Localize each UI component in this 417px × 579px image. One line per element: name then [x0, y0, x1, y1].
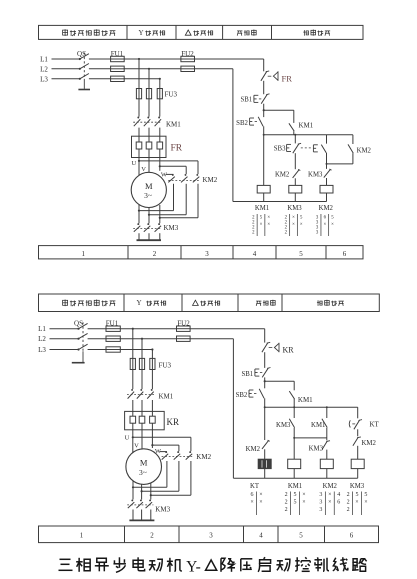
- wire FU3 to KM1 (bottom): [132, 370, 134, 390]
- wire control vertical from L1: [263, 59, 265, 71]
- wire main branch down (bottom): [264, 406, 266, 408]
- svg-text:L3: L3: [38, 346, 46, 354]
- svg-text:L1: L1: [38, 325, 46, 333]
- svg-text:U: U: [131, 160, 136, 167]
- svg-text:1: 1: [82, 250, 86, 258]
- wire QS to FU1 (L3): [89, 78, 111, 80]
- svg-text:U: U: [125, 434, 130, 441]
- wire QS to FU1 (L1): [89, 58, 111, 60]
- wire KM2 c3 to W2: [197, 184, 199, 218]
- wire FU2/L2 to return drop (bottom): [190, 338, 233, 340]
- header table (top diagram): 电源开关及保护 | Y形启动 | △形启动 | 熔断器 | 控制电路: [39, 25, 364, 39]
- wire L1 to QS: [52, 58, 80, 60]
- coil KM3: [289, 185, 302, 193]
- time relay KT delayed contact: [349, 420, 379, 430]
- contactor KM1 aux NO (self hold): [289, 122, 314, 132]
- thermal relay FR NC contact (control): [261, 71, 292, 83]
- svg-text:SB3: SB3: [274, 146, 286, 153]
- svg-text:KM1: KM1: [255, 205, 269, 212]
- wire KM2 coil to return: [326, 193, 328, 202]
- fuse FU2 (2 poles, control circuit): [181, 50, 195, 72]
- svg-text:FR: FR: [171, 143, 183, 153]
- svg-text:×: ×: [302, 500, 305, 506]
- wire C down to FU3: [159, 79, 161, 89]
- svg-text:L1: L1: [40, 56, 48, 64]
- wire SB1 to node: [263, 104, 265, 117]
- pushbutton SB3 NO half: [313, 145, 326, 153]
- svg-text:KM3: KM3: [350, 483, 365, 490]
- svg-text:KM2: KM2: [362, 440, 377, 447]
- wire rail to SB3 NC: [294, 135, 296, 144]
- wire V2 down: [148, 207, 150, 223]
- svg-text:2: 2: [347, 507, 350, 513]
- svg-text:×: ×: [355, 500, 358, 506]
- wire FU1 to FU2 (L2): [124, 68, 181, 70]
- contactor KM1 aux NO (bottom): [289, 391, 313, 404]
- contact usage table KT: [250, 492, 262, 516]
- motor M 3-phase (bottom): [126, 449, 162, 485]
- svg-text:2: 2: [153, 250, 157, 258]
- wire FU1 to FU2 (L1): [124, 58, 181, 60]
- wire W1 to KM2 c1 (bottom): [160, 451, 167, 453]
- wire SB2 to rail: [263, 126, 265, 135]
- contactor KM3 NC (row2): [309, 441, 330, 453]
- wire W2 down (bottom): [150, 483, 152, 500]
- linkage SB3 dashed: [301, 147, 313, 149]
- wire KR to motor W1 (bottom): [151, 430, 153, 448]
- wire SB3 NC to KM2 NO: [294, 153, 296, 169]
- contactor KM2 aux NO (self hold right): [348, 144, 372, 154]
- junction SB3NO/KM2aux: [326, 163, 328, 165]
- wire KM1 aux to rail (bottom): [293, 399, 295, 407]
- fuse FU1 (3 poles): [111, 50, 125, 82]
- wire KR to motor U1 (bottom): [132, 430, 134, 453]
- wire FU2/L2 to control return rail: [195, 68, 233, 70]
- wire FU2 to control circuit top: [195, 58, 264, 60]
- contactor KM2 aux NO (row2): [275, 169, 300, 178]
- wire L2 to QS: [52, 68, 80, 70]
- contactor KM2 delta contacts (bottom): [162, 451, 212, 461]
- svg-text:3: 3: [209, 532, 213, 540]
- contact usage table KM2: [316, 214, 334, 236]
- wire rail 2 (bottom): [265, 406, 358, 408]
- svg-text:6: 6: [251, 492, 254, 498]
- junction rail branch 2 (bottom): [293, 406, 295, 408]
- switch QS (3-pole knife switch): [77, 50, 89, 81]
- wire branch to KM1 aux: [264, 109, 294, 111]
- wire B to FU3 (bottom): [141, 339, 143, 359]
- coil KM1 (bottom): [288, 459, 301, 468]
- svg-text:SB2: SB2: [236, 392, 248, 399]
- star point bar: [137, 233, 162, 240]
- svg-text:3: 3: [205, 250, 209, 258]
- junction node B on L2: [148, 68, 150, 70]
- svg-text:6: 6: [350, 532, 354, 540]
- pushbutton SB2 (bottom, NO): [236, 389, 265, 399]
- wire KT contact to KM2 NC: [357, 429, 359, 436]
- switch QS (bottom): [74, 319, 88, 351]
- wire C tee to KM2 c2 (bottom): [151, 444, 153, 446]
- svg-text:×: ×: [260, 222, 263, 227]
- contactor KM3 aux NO (row2): [308, 169, 331, 179]
- wire control vertical (bottom): [264, 329, 266, 343]
- ground (bottom): [72, 351, 85, 363]
- svg-text:KT: KT: [370, 421, 380, 429]
- svg-text:×: ×: [300, 222, 303, 227]
- svg-text:×: ×: [302, 492, 305, 498]
- wire KM1 NO to KM3 NC: [326, 428, 328, 441]
- contact usage table KM2 (bottom): [319, 492, 340, 516]
- svg-text:SB1: SB1: [240, 97, 252, 104]
- pushbutton SB1 (bottom, NC): [241, 368, 270, 378]
- wire V2 down (bottom): [141, 484, 143, 499]
- wire A to FU3 (bottom): [132, 329, 134, 359]
- svg-text:×: ×: [259, 500, 262, 506]
- svg-text:5: 5: [364, 492, 367, 498]
- svg-text:×: ×: [267, 215, 270, 220]
- wire KM3 coil to return (bottom): [357, 469, 359, 479]
- wire A down to FU3: [138, 59, 140, 89]
- wire KR to motor V1 (bottom): [141, 430, 143, 449]
- contact usage table KM3: [285, 214, 303, 236]
- wire A tee to KM2 c3 (bottom): [132, 436, 134, 438]
- svg-text:L2: L2: [38, 335, 46, 343]
- svg-text:2: 2: [285, 507, 288, 513]
- wire B down to FU3: [148, 69, 150, 89]
- svg-text:3~: 3~: [139, 468, 147, 477]
- junction A (bottom): [132, 328, 134, 330]
- wire KT coil to return: [264, 469, 266, 479]
- fuse FU1 (bottom): [106, 319, 121, 352]
- wire KM3 coil to return: [294, 193, 296, 202]
- wire FU1 to C (bottom L3): [120, 349, 152, 351]
- coil KM2 (bottom): [320, 459, 333, 468]
- junction node A on L1: [138, 58, 140, 60]
- wire QS to FU1 (L2): [89, 68, 111, 70]
- svg-text:5: 5: [356, 492, 359, 498]
- fuse FU2 (bottom): [177, 319, 191, 341]
- svg-text:KM3: KM3: [309, 445, 324, 452]
- svg-text:×: ×: [323, 222, 326, 227]
- svg-text:×: ×: [259, 492, 262, 498]
- thermal relay KR NC contact (control): [262, 342, 294, 354]
- wire KM2 coil to return (bottom): [326, 469, 328, 479]
- svg-text:×: ×: [292, 222, 295, 227]
- svg-text:KM2: KM2: [275, 171, 290, 178]
- node SB2/KM1 branch: [263, 109, 265, 111]
- coil KM3 (bottom): [351, 459, 364, 468]
- wire SB1 to node (bottom): [264, 377, 266, 388]
- junction rail/KM1 coil: [263, 134, 265, 136]
- svg-text:KM3: KM3: [164, 224, 179, 232]
- svg-text:KR: KR: [283, 346, 295, 355]
- wire node line: [294, 437, 327, 439]
- wire KM2 c1 to U2 (bottom): [166, 461, 168, 487]
- contactor KM1 main contacts (bottom): [127, 389, 174, 400]
- svg-text:KM3: KM3: [287, 205, 302, 212]
- junction SB3 branch: [294, 134, 296, 136]
- contactor KM1 main contacts: [133, 117, 181, 129]
- wire KM1 aux to rail: [293, 131, 295, 135]
- svg-text:KM1: KM1: [288, 483, 302, 490]
- junction rail branch 3 (bottom): [326, 406, 328, 408]
- wire L2 to QS (bottom): [50, 338, 79, 340]
- svg-text:×: ×: [328, 500, 331, 506]
- wire KM2 c2 to V2: [185, 184, 187, 215]
- junction B (bottom): [141, 338, 143, 340]
- wire L3 to QS: [52, 78, 80, 80]
- svg-text:2: 2: [285, 500, 288, 506]
- wire return rail (bottom): [233, 477, 357, 479]
- svg-text:KM2: KM2: [357, 147, 372, 154]
- svg-text:KM2: KM2: [319, 205, 334, 212]
- wire A tee to KM2 contact 3: [138, 160, 140, 162]
- wire L3 to QS (bottom): [50, 349, 79, 351]
- wire KM2 NC to KM3 coil: [357, 446, 359, 459]
- svg-text:2: 2: [150, 532, 154, 540]
- wire FU3 to KM1 contacts: [138, 99, 140, 117]
- wire FU2 to control top (bottom): [190, 328, 265, 330]
- svg-text:4: 4: [253, 250, 257, 258]
- svg-text:KM1: KM1: [311, 422, 325, 429]
- wire FR to motor W1: [159, 158, 161, 171]
- svg-text:3: 3: [319, 500, 322, 506]
- wire control return rail bottom: [233, 201, 327, 203]
- zone strip (bottom diagram) 1-6: [39, 526, 379, 543]
- wire FU1 to FU2 (bottom L2): [120, 338, 176, 340]
- svg-text:5: 5: [299, 250, 303, 258]
- svg-text:×: ×: [364, 500, 367, 506]
- wire FR to motor V1: [148, 158, 150, 173]
- wire KM2 self-hold to junction: [352, 153, 354, 164]
- svg-text:FU3: FU3: [159, 361, 172, 369]
- coil KM1: [257, 185, 270, 193]
- svg-text:SB1: SB1: [241, 371, 253, 378]
- svg-text:KM1: KM1: [299, 122, 314, 130]
- svg-text:1: 1: [80, 532, 84, 540]
- svg-text:5: 5: [299, 532, 303, 540]
- wire rail to KM3 NC: [293, 407, 295, 418]
- wire KM3 NC to node: [293, 428, 295, 459]
- svg-text:M: M: [145, 181, 153, 191]
- thermal relay FR (heater elements): [132, 136, 183, 157]
- contactor KM3 star contacts: [133, 223, 179, 232]
- wire KR to SB1 (bottom): [264, 352, 266, 368]
- wire QS to FU1 (bottom): [88, 328, 106, 330]
- svg-text:KM3: KM3: [308, 172, 323, 179]
- zone strip (top diagram) 1-6: [39, 246, 364, 259]
- node branch (bottom): [264, 380, 266, 382]
- svg-text:KM2: KM2: [196, 453, 211, 461]
- svg-text:FR: FR: [282, 73, 293, 83]
- wire branch to KM1 aux (bottom): [265, 380, 295, 382]
- wire KM3 NC to KM2 coil (bottom): [326, 450, 328, 460]
- svg-text:2: 2: [285, 492, 288, 498]
- wire SB2 to rail (bottom): [264, 398, 266, 407]
- svg-text:Y-: Y-: [186, 558, 201, 575]
- svg-text:L2: L2: [40, 65, 48, 73]
- wire rail to KT contact: [357, 407, 359, 418]
- wire W2 down: [159, 205, 161, 223]
- wire rail to KM2 self-hold: [352, 135, 354, 144]
- ground: [78, 81, 90, 90]
- contact usage table KM1 (bottom): [285, 492, 306, 516]
- wire KM2 c3 to W2 (bottom): [190, 461, 192, 495]
- contactor KM2 delta contacts: [168, 174, 218, 184]
- svg-text:Y: Y: [138, 29, 143, 37]
- wire KM1 coil to return (bottom): [293, 469, 295, 479]
- svg-text:2: 2: [347, 500, 350, 506]
- wire KM2 c2 to V2 (bottom): [178, 461, 180, 491]
- wire KM3 NO to KM2 coil: [326, 178, 328, 185]
- svg-text:KM2: KM2: [323, 483, 338, 490]
- wire U2 down: [138, 204, 140, 223]
- svg-text:QS: QS: [74, 319, 83, 327]
- contactor KM2 NC (right): [353, 437, 377, 447]
- wire KM1 to KR (bottom): [132, 400, 134, 411]
- contactor KM1 aux NO (row1 right): [311, 419, 327, 429]
- wire to KM1 coil: [263, 135, 265, 186]
- svg-text:6: 6: [343, 250, 347, 258]
- wire KM1 coil to return: [263, 193, 265, 202]
- coil KM2: [320, 185, 333, 193]
- wire FU1 to branch C (L3): [124, 78, 160, 80]
- svg-text:L3: L3: [40, 75, 48, 83]
- wire KM2 NO to KM3 coil: [294, 178, 296, 185]
- wire FU1 to FU2 (bottom L1): [120, 328, 176, 330]
- pushbutton SB3 NC half: [274, 143, 301, 153]
- star point bar (bottom): [129, 510, 154, 521]
- wire SB3 NO down: [326, 135, 328, 144]
- wire rail to KM1 NO (bottom): [326, 407, 328, 418]
- svg-text:4: 4: [337, 492, 340, 498]
- contact usage table KM3 (bottom): [347, 492, 368, 516]
- coil KT (time relay, filled): [258, 459, 271, 468]
- svg-text:Y: Y: [136, 299, 141, 307]
- wire rail 1: [264, 134, 353, 136]
- svg-text:×: ×: [331, 222, 334, 227]
- junction mid node (bottom): [293, 437, 295, 439]
- svg-text:5: 5: [294, 492, 297, 498]
- caption 三相异步电动机 Y-△降压启动控制线路: [59, 557, 367, 575]
- contactor KM3 NC contact (row1): [276, 419, 295, 429]
- pushbutton SB1 (stop, NC): [240, 94, 269, 104]
- svg-text:×: ×: [267, 222, 270, 227]
- svg-text:KR: KR: [167, 417, 180, 427]
- contact usage table KM1: [252, 214, 270, 236]
- svg-text:×: ×: [328, 492, 331, 498]
- junction C (bottom): [151, 348, 153, 350]
- svg-text:KM1: KM1: [159, 392, 174, 400]
- svg-text:KM3: KM3: [155, 505, 170, 513]
- wire FR to SB1: [263, 81, 265, 94]
- svg-text:KM2: KM2: [203, 176, 218, 184]
- thermal relay KR (heaters): [125, 411, 179, 429]
- svg-text:KM3: KM3: [276, 422, 291, 429]
- svg-text:4: 4: [259, 532, 263, 540]
- svg-text:FU3: FU3: [165, 91, 178, 99]
- wire KM1 to FR: [138, 128, 140, 137]
- svg-text:3: 3: [319, 492, 322, 498]
- fuse FU3 (bottom): [130, 358, 171, 369]
- svg-text:5: 5: [294, 500, 297, 506]
- contactor KM2 aux NO before KT coil: [246, 440, 270, 453]
- svg-text:KM1: KM1: [298, 396, 313, 404]
- svg-text:6: 6: [337, 500, 340, 506]
- contactor KM3 star contacts (bottom): [127, 499, 170, 513]
- svg-text:KM2: KM2: [246, 446, 261, 453]
- motor M 3-phase: [131, 172, 166, 207]
- wire FR to motor U1: [138, 158, 140, 176]
- wire L1 to QS (bottom): [50, 328, 79, 330]
- svg-text:3~: 3~: [144, 191, 152, 200]
- wire U2 down (bottom): [132, 481, 134, 500]
- svg-text:3: 3: [319, 507, 322, 513]
- wire KM2 c1 to U2: [173, 184, 175, 211]
- svg-text:SB2: SB2: [236, 120, 248, 127]
- wire C tee to KM2 contact 2: [159, 165, 161, 167]
- svg-text:V: V: [134, 442, 139, 449]
- junction node C on L3: [159, 78, 161, 80]
- svg-text:KM1: KM1: [166, 120, 181, 128]
- pushbutton SB2 (start, NO): [236, 117, 263, 127]
- wire W1 to KM2 contact 1: [166, 173, 174, 175]
- svg-text:M: M: [140, 457, 148, 467]
- wire C to FU3 (bottom): [151, 350, 153, 359]
- svg-text:KT: KT: [250, 483, 260, 490]
- svg-text:×: ×: [250, 500, 253, 506]
- fuse FU3 (3 poles): [136, 89, 177, 99]
- header table (bottom diagram): 电源开关及保护 | Y形启动 | △形启动 | 熔断器 | 控制电路: [39, 294, 380, 312]
- svg-text:×: ×: [292, 215, 295, 220]
- wire KM2 aux to KT coil: [264, 449, 266, 459]
- svg-text:2: 2: [347, 492, 350, 498]
